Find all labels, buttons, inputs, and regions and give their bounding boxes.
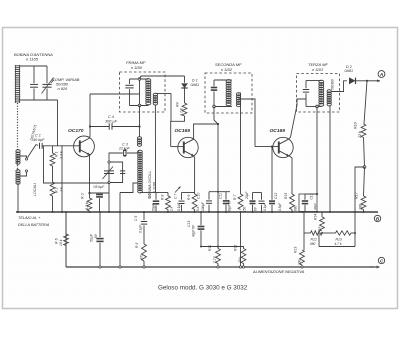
capacitor MF1 [125, 84, 133, 86]
resistor R14 [320, 217, 325, 231]
rail mid [322, 232, 336, 234]
wire C4 left [90, 126, 109, 128]
bias box left [318, 233, 320, 247]
MF2 cap bottom lead [213, 91, 215, 106]
svg-text:C 4: C 4 [108, 115, 114, 119]
wire MF3 terminal down [316, 107, 318, 195]
capacitor C7 [179, 200, 185, 202]
negative bus junction [239, 266, 241, 268]
wire D2 down [364, 81, 367, 124]
osc coil tap [120, 183, 138, 193]
wire base OC169b [255, 146, 279, 148]
terminal C [378, 257, 384, 263]
transformer MF1 box [120, 72, 166, 112]
antenna dotted line [17, 103, 19, 171]
MF2 tank top rail [214, 79, 232, 81]
antenna tap coil upper [16, 150, 20, 153]
wire R16 bottom [363, 210, 365, 213]
svg-text:ALIMENTAZIONE NEGATIVA: ALIMENTAZIONE NEGATIVA [252, 269, 305, 274]
capacitor C7 leads [181, 193, 183, 200]
svg-text:40µF 6V: 40µF 6V [192, 224, 196, 237]
svg-text:100: 100 [359, 204, 363, 210]
svg-text:LOCALI: LOCALI [33, 183, 37, 196]
svg-text:680: 680 [310, 242, 316, 246]
diode D2 [349, 77, 356, 84]
resistor R7 (on AGC line) [238, 194, 243, 210]
wire R4 to base junction [171, 116, 185, 147]
wire MF2 secondary top [238, 93, 241, 194]
wire D1 to R4 [184, 88, 186, 103]
wire tap2 to switch [21, 172, 27, 176]
resistor R13h [336, 231, 352, 235]
svg-text:n 1152: n 1152 [221, 68, 232, 72]
svg-text:1 k: 1 k [60, 187, 64, 192]
negative bus junction [143, 266, 145, 268]
MF2 secondary winding [236, 93, 240, 96]
wire antenna top [20, 65, 48, 67]
oscillator coil winding [138, 150, 143, 153]
osc terminal bottom [108, 181, 110, 183]
bus junction [261, 211, 263, 213]
svg-text:4.7 k: 4.7 k [335, 242, 342, 246]
wire R1 top [52, 146, 54, 154]
svg-text:R 1: R 1 [55, 151, 59, 157]
negative bus junction [301, 266, 303, 268]
capacitor fixed antenna [30, 83, 38, 85]
detector block box [299, 194, 317, 212]
bus junction [167, 211, 169, 213]
bus junction [89, 211, 91, 213]
bus junction [143, 211, 145, 213]
negative bus [65, 212, 67, 267]
terminal A [378, 71, 385, 78]
node base bypass [271, 146, 273, 148]
terminal B [374, 215, 380, 221]
bias bottom rail [319, 246, 355, 248]
node bias [321, 232, 323, 234]
negative supply bus [66, 266, 375, 268]
osc variable capacitor [104, 170, 114, 172]
transistor OC169a [178, 137, 198, 157]
svg-text:4.7 k: 4.7 k [180, 108, 184, 116]
svg-text:0.1µF: 0.1µF [263, 202, 267, 211]
switch LOCALI contact [25, 170, 27, 172]
svg-text:n 1150: n 1150 [131, 66, 143, 70]
svg-text:100: 100 [298, 259, 302, 265]
MF1 cap top lead [129, 79, 131, 84]
capacitor C13 leads [304, 194, 306, 200]
MF3 primary winding [319, 80, 324, 83]
wire x120 down [119, 193, 121, 268]
capacitor C16 leads [200, 212, 202, 225]
wire MF2 secondary tap [239, 99, 255, 147]
node collector-C4 [89, 125, 91, 127]
capacitor C2 [96, 194, 103, 196]
capacitor C12 [269, 200, 275, 202]
capacitor C5 [141, 221, 147, 223]
svg-text:C12: C12 [274, 193, 278, 199]
switch DISTANTI contact [25, 158, 27, 160]
resistor R14 wire [321, 212, 323, 217]
AGC rail [209, 191, 230, 193]
bus junction [316, 211, 318, 213]
bus junction [208, 211, 210, 213]
transistor OC170 [74, 136, 95, 157]
MF3 cap top lead [305, 81, 307, 89]
wire R6 bottom [65, 246, 67, 268]
MF1 tank top rail [130, 78, 149, 80]
MF3 tank bottom rail [306, 106, 322, 108]
node D2 output [366, 80, 368, 82]
MF1 secondary winding [153, 93, 157, 96]
wire MF2 bottom down [214, 107, 218, 247]
wire collector to MF1 [90, 93, 140, 95]
svg-text:D 2: D 2 [346, 65, 352, 69]
bay rail volume [156, 192, 168, 194]
wire antenna tank bottom [18, 99, 58, 101]
rail right [351, 232, 355, 234]
resistor R6 [64, 234, 69, 246]
capacitor C17 (50uF) [96, 238, 103, 240]
svg-text:0.5µF: 0.5µF [278, 202, 282, 211]
svg-text:2.2 k: 2.2 k [60, 151, 64, 160]
wire osc feed [44, 146, 110, 184]
antenna tap coil lower [16, 170, 20, 173]
svg-text:R14: R14 [314, 214, 318, 220]
MF3 terminal bottom [316, 105, 319, 108]
wire emitter to R3 [89, 193, 91, 198]
resistor R4 [182, 103, 187, 116]
resistor R3 [87, 198, 92, 211]
capacitor C5 leads [143, 212, 145, 220]
node R13-355 [354, 232, 356, 234]
capacitor C6 leads [155, 193, 157, 200]
resistor R2 [50, 182, 55, 196]
node MF2 bottom feed [217, 123, 219, 125]
svg-text:n 1165: n 1165 [26, 57, 39, 62]
svg-text:50µF: 50µF [90, 233, 94, 242]
svg-text:C 5: C 5 [134, 216, 138, 221]
resistor R11 [217, 247, 219, 249]
svg-text:OC169: OC169 [270, 128, 286, 134]
wire switch to C1 [36, 145, 38, 146]
osc terminal top [108, 161, 110, 163]
bus junction [17, 211, 19, 213]
antenna coil L1 (ferrite bar winding) [15, 65, 17, 103]
wire R10 down [364, 138, 365, 168]
capacitor MF3 [303, 89, 309, 91]
rail 246 left [201, 246, 241, 248]
wire C2 bottom [99, 198, 101, 212]
bus junction [363, 211, 365, 213]
svg-text:DELLA BATTERIA: DELLA BATTERIA [18, 223, 50, 227]
wire osc coil bottom [140, 192, 156, 194]
capacitor MF2 [211, 87, 217, 89]
node rail246 b [217, 246, 219, 248]
MF1 terminal bottom [138, 104, 141, 107]
svg-text:n 926: n 926 [58, 86, 69, 91]
bus junction [329, 211, 331, 213]
svg-text:0A81: 0A81 [191, 83, 200, 87]
svg-text:680: 680 [294, 205, 298, 211]
capacitor C16 [198, 226, 205, 228]
svg-text:R10: R10 [354, 122, 358, 129]
MF2 tank bottom rail [214, 106, 232, 108]
svg-text:R12: R12 [311, 238, 317, 242]
svg-text:R 5: R 5 [135, 243, 139, 248]
svg-text:R17: R17 [355, 191, 359, 199]
negative bus arrow [370, 266, 380, 268]
svg-text:R 2: R 2 [55, 187, 59, 193]
svg-text:50µF: 50µF [152, 203, 156, 211]
capacitor C14 leads [252, 193, 254, 200]
bus junction [240, 211, 242, 213]
volume pot rail [182, 192, 195, 194]
transformer MF3 box [297, 74, 340, 113]
resistor R6 wire [65, 212, 67, 234]
svg-text:OC170: OC170 [68, 128, 84, 134]
MF1 primary winding [146, 79, 151, 82]
capacitor C9 [206, 200, 212, 202]
svg-text:R 3: R 3 [81, 193, 85, 199]
wire MF1 secondary top [155, 93, 171, 95]
svg-text:TELAIO AL +: TELAIO AL + [18, 216, 41, 220]
wire MF1 bottom to osc [139, 106, 141, 138]
wire det block [305, 193, 317, 195]
bus junction [119, 211, 121, 213]
svg-text:R 6: R 6 [55, 238, 59, 244]
svg-text:R15: R15 [284, 193, 288, 199]
svg-text:5 k: 5 k [196, 206, 200, 211]
wire OC170 emitter [89, 154, 91, 193]
bus junction [354, 211, 356, 213]
transistor OC169b [273, 137, 293, 157]
bus junction [52, 211, 54, 213]
svg-text:0A81: 0A81 [345, 69, 354, 73]
wire C1 to base OC170 [42, 145, 80, 147]
negative bus junction [242, 266, 244, 268]
wire to A terminal [367, 80, 380, 82]
MF1 terminal top [138, 78, 141, 81]
capacitor C13 [302, 200, 308, 202]
wire osc box to chassis [108, 183, 110, 212]
capacitor C3 [123, 150, 125, 156]
resistor R8 [167, 193, 169, 197]
MF2 terminal bottom [213, 105, 216, 108]
transformer MF2 box [205, 73, 252, 113]
MF1 cap bottom lead [129, 89, 131, 105]
node AGC [363, 166, 366, 169]
wire base OC169a [171, 146, 184, 148]
wire MF3 secondary down [329, 106, 331, 213]
svg-text:R13: R13 [294, 247, 298, 253]
svg-text:D 1: D 1 [192, 79, 198, 83]
svg-text:R 8: R 8 [161, 195, 165, 200]
bus junction [225, 211, 227, 213]
svg-text:C 6: C 6 [148, 194, 152, 199]
MF1 tank bottom rail [130, 105, 149, 107]
bus junction [61, 211, 63, 213]
negative bus junction [217, 266, 219, 268]
svg-text:300 µF: 300 µF [105, 119, 118, 123]
resistor R9 (volume) [192, 194, 197, 210]
pot wiper arrow [175, 187, 181, 193]
MF3 secondary winding [327, 90, 331, 93]
wire to base divider [57, 100, 59, 146]
svg-text:R13: R13 [336, 238, 342, 242]
bus junction [252, 211, 254, 213]
MF2 cap top lead [213, 80, 215, 86]
capacitor C11 leads [225, 192, 227, 200]
wire D2 node [356, 80, 368, 82]
capacitor C14 [250, 200, 256, 202]
wire bias left [303, 212, 305, 250]
wire tap1 to switch [21, 156, 27, 158]
svg-text:n 1153: n 1153 [312, 68, 324, 72]
MF3 cap bottom lead [305, 93, 307, 106]
wire tank right lower [46, 89, 48, 101]
resistor R5 [142, 244, 147, 261]
wire MF1 top to D1 [140, 76, 185, 79]
svg-text:1 k: 1 k [318, 226, 322, 231]
svg-text:40µF: 40µF [313, 203, 317, 210]
bus junction [65, 211, 67, 213]
MF3 tank top rail [306, 80, 322, 82]
wire R5 bottom [143, 261, 145, 267]
wire coil bottom to chassis [17, 183, 19, 212]
svg-text:150: 150 [243, 206, 247, 212]
wire R16 top [364, 167, 365, 196]
capacitor C6 [153, 200, 159, 202]
svg-text:590380: 590380 [331, 79, 335, 90]
svg-text:15 k: 15 k [238, 257, 242, 263]
wire OC169a collector [194, 124, 218, 139]
wire tank right [46, 66, 48, 83]
svg-text:A: A [379, 72, 383, 77]
wire C4 right [112, 126, 140, 128]
wire OC170 collector [89, 94, 91, 137]
capacitor C1 [39, 143, 41, 149]
svg-text:R 7: R 7 [233, 195, 237, 200]
bus junction [108, 211, 110, 213]
bus junction [291, 211, 293, 213]
bus junction [217, 211, 219, 213]
bus junction [99, 211, 101, 213]
osc padder capacitor [120, 170, 125, 172]
svg-text:R4: R4 [176, 102, 180, 107]
capacitor C17 leads [99, 212, 101, 237]
wire R15 bottom [301, 265, 303, 267]
wire tank left lower [33, 89, 35, 101]
bus junction [194, 211, 196, 213]
svg-text:0.1µF: 0.1µF [177, 202, 181, 211]
wire osc top [109, 153, 123, 162]
svg-text:C10: C10 [197, 193, 201, 199]
capacitor C15 [259, 200, 265, 202]
resistor R15e [290, 194, 295, 210]
bias rail [304, 232, 311, 234]
svg-text:C13: C13 [187, 221, 191, 227]
capacitor C9 leads [208, 192, 210, 200]
resistor R15 bottom [300, 250, 305, 265]
wire OC169b collector [289, 99, 306, 139]
svg-text:2.2 k: 2.2 k [213, 256, 217, 264]
diode D1 [184, 76, 186, 83]
oscillator coupling winding [137, 137, 141, 140]
resistor R12h [311, 231, 323, 235]
svg-text:40µF 6V: 40µF 6V [228, 199, 232, 212]
bus junction [200, 211, 202, 213]
svg-text:C 7: C 7 [174, 194, 178, 199]
wire C2 top [99, 192, 101, 194]
svg-text:PRIMA MF: PRIMA MF [126, 60, 146, 65]
svg-text:10kpF: 10kpF [201, 201, 205, 211]
wire OC169a emitter [193, 156, 196, 195]
resistor R12v [241, 247, 244, 249]
node C4-oscillator [138, 125, 140, 127]
wire R2 bottom [52, 196, 54, 212]
emitter rail [88, 192, 90, 194]
oscillator tank box [109, 162, 123, 183]
svg-text:0.1µF: 0.1µF [139, 224, 143, 233]
svg-text:1 k: 1 k [170, 206, 174, 211]
resistor R1 [50, 153, 55, 166]
capacitor C4 [108, 123, 110, 129]
svg-text:3.2 k: 3.2 k [85, 202, 89, 210]
wire R1-R2 [52, 166, 54, 182]
svg-text:15 k: 15 k [59, 239, 63, 246]
resistor R10 [361, 124, 366, 138]
svg-text:R 9: R 9 [187, 195, 191, 200]
svg-text:05 kµF: 05 kµF [94, 185, 106, 189]
wire tank left [33, 66, 35, 83]
svg-text:R11: R11 [208, 245, 212, 251]
base bypass wire [271, 147, 273, 200]
svg-text:470: 470 [140, 254, 144, 260]
MF2 primary winding [226, 80, 231, 83]
svg-text:R12: R12 [234, 245, 238, 251]
wire MF1 secondary bottom [154, 106, 156, 193]
svg-text:C11: C11 [219, 193, 223, 199]
negative bus junction [99, 266, 101, 268]
wire secondary to base junction [170, 94, 172, 122]
node detector [316, 193, 318, 195]
wire MF3 top to D2 [332, 81, 348, 92]
resistor R16 [361, 196, 366, 210]
svg-text:Geloso modd. G 3030 e G 3032: Geloso modd. G 3030 e G 3032 [158, 284, 248, 291]
svg-text:TERZA MF: TERZA MF [308, 62, 328, 67]
wire x240 to bottom [240, 211, 242, 267]
chassis bus (+ battery) [16, 211, 378, 213]
node AGC rail [217, 191, 219, 193]
wire AGC step [355, 167, 365, 247]
capacitor C15 leads [261, 193, 263, 200]
emitter bay rail [253, 192, 262, 194]
svg-text:OC169: OC169 [175, 128, 191, 134]
capacitor C11 (electrolytic) [223, 200, 229, 202]
switch arm [28, 145, 37, 158]
wire OC169b emitter [289, 156, 292, 195]
svg-text:20µF: 20µF [245, 191, 249, 200]
wire C3 to coil [127, 150, 140, 153]
svg-text:22 k: 22 k [358, 131, 362, 139]
wire divider to chassis [61, 146, 63, 213]
node rail246 a [200, 246, 202, 248]
bus junction [301, 211, 303, 213]
negative bus junction [119, 266, 121, 268]
MF1 centre lead [139, 79, 141, 106]
svg-text:40 kpF: 40 kpF [33, 138, 45, 142]
